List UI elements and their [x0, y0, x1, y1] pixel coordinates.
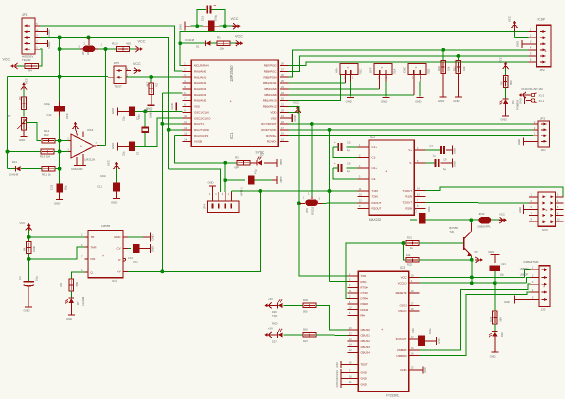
svg-text:GND: GND [336, 382, 339, 388]
svg-text:MCLR/RA4: MCLR/RA4 [194, 64, 209, 68]
connector JP2 ICSP [537, 25, 552, 66]
svg-text:S1B: S1B [427, 69, 431, 74]
IC IC4 LM555 [88, 230, 123, 277]
svg-text:RA1/AN1: RA1/AN1 [194, 75, 206, 79]
svg-text:R1IN: R1IN [405, 195, 412, 199]
svg-text:1µ: 1µ [347, 148, 350, 152]
svg-text:JP8: JP8 [305, 208, 309, 213]
supply VCC at R1 [230, 42, 235, 44]
svg-text:RI#: RI# [361, 313, 366, 317]
svg-text:TEST: TEST [361, 363, 368, 367]
svg-text:GND: GND [516, 41, 520, 47]
resistor R3 [225, 162, 237, 164]
svg-text:GND: GND [490, 355, 496, 359]
svg-text:C13: C13 [128, 256, 133, 260]
ground D3 [505, 104, 507, 116]
svg-text:5V: 5V [475, 250, 478, 254]
svg-text:RB2/AN8: RB2/AN8 [264, 93, 276, 97]
ground R16 [440, 96, 447, 98]
capacitor C1 / ground [116, 142, 118, 150]
svg-text:VUSB: VUSB [194, 140, 202, 144]
ground C32 [59, 193, 61, 200]
wire T1OUT to SV3 pin2 [426, 187, 563, 197]
svg-text:GND: GND [54, 202, 60, 206]
svg-text:JP22: JP22 [478, 212, 485, 216]
connector SV3 [538, 192, 556, 226]
ground R17 [455, 96, 462, 98]
svg-text:10k: 10k [406, 253, 411, 257]
svg-text:X1-2: X1-2 [539, 94, 545, 98]
svg-text:+: + [381, 66, 383, 70]
resistor R4 [25, 64, 39, 69]
svg-text:CBUS4: CBUS4 [361, 350, 371, 354]
svg-text:1µ: 1µ [433, 154, 436, 158]
svg-text:VSS: VSS [271, 116, 277, 120]
potentiometer column R6 [23, 83, 25, 90]
ground C3 [25, 306, 32, 308]
svg-text:DTR#: DTR# [361, 297, 369, 301]
wire FT VCC row [419, 276, 524, 278]
svg-text:RB1/AN10: RB1/AN10 [263, 99, 277, 103]
ground R7 [23, 130, 25, 137]
svg-text:47n: 47n [133, 260, 138, 264]
resistor R21 [406, 241, 419, 246]
svg-text:C11: C11 [97, 185, 102, 189]
svg-text:18F2550: 18F2550 [229, 65, 234, 82]
switch S1A [374, 64, 392, 75]
wire DTR to R21/R22 [346, 243, 404, 299]
svg-text:47µ: 47µ [254, 169, 258, 174]
svg-text:VCC: VCC [133, 62, 141, 66]
ground D30 [494, 337, 496, 352]
wire op-amp out riser [105, 49, 107, 146]
wire VCC to J20 pin1 [525, 270, 531, 278]
capacitor C3 [28, 259, 30, 282]
svg-text:GND: GND [424, 367, 427, 373]
svg-text:GND: GND [19, 138, 25, 142]
svg-text:100µ: 100µ [44, 102, 50, 106]
svg-text:+: + [80, 145, 82, 149]
svg-text:10k: 10k [447, 66, 451, 71]
svg-text:100k: 100k [32, 246, 36, 252]
wire RB2 to S1B [288, 94, 413, 96]
ground R2 [150, 94, 152, 105]
svg-text:THR: THR [91, 245, 97, 249]
ground S1B [417, 97, 424, 99]
wire RB4 to S1C [288, 82, 345, 84]
connector JP4 [207, 201, 239, 212]
svg-text:RB0/AN12: RB0/AN12 [263, 105, 277, 109]
ground S1C [347, 97, 354, 99]
svg-text:R: R [118, 258, 120, 262]
svg-text:GND: GND [400, 368, 406, 372]
svg-text:OSCI: OSCI [400, 304, 407, 308]
wire RC6 TX line [288, 129, 533, 131]
ground ICSP pin3 [521, 40, 523, 48]
svg-text:TXD: TXD [272, 314, 277, 318]
svg-text:IC3: IC3 [400, 266, 405, 270]
svg-text:VCC: VCC [235, 35, 243, 39]
supply VCC at C17 [225, 25, 233, 27]
ground D2 [276, 159, 278, 167]
svg-text:560: 560 [303, 328, 308, 332]
svg-text:C6: C6 [347, 162, 351, 166]
capacitor C8 [426, 162, 435, 164]
IC IC2 MAX232 [369, 140, 414, 215]
svg-text:82p: 82p [64, 185, 68, 190]
wire RC5 to JP3 [288, 135, 533, 137]
svg-text:V-: V- [409, 161, 412, 165]
LED D30 USB [494, 324, 496, 332]
svg-text:USBSUPPL: USBSUPPL [477, 225, 491, 229]
diode D1 [180, 42, 205, 44]
svg-text:GND: GND [519, 98, 523, 104]
resistor R12 [117, 47, 130, 52]
svg-text:RB3/AN9: RB3/AN9 [264, 87, 276, 91]
svg-text:T2OUT: T2OUT [403, 201, 413, 205]
connector JP3 [538, 121, 549, 147]
svg-text:RB7/PGD: RB7/PGD [264, 64, 277, 68]
svg-text:GND: GND [111, 143, 115, 149]
svg-text:RXD: RXD [272, 322, 278, 326]
svg-text:C16: C16 [200, 15, 204, 21]
svg-text:2k2: 2k2 [44, 133, 49, 137]
svg-text:RC2/CCP1: RC2/CCP1 [194, 134, 209, 138]
LED D3 POWER [505, 88, 507, 99]
node riser x59.6 [59, 37, 61, 101]
svg-text:+: + [347, 66, 349, 70]
capacitor C12 [54, 106, 65, 112]
svg-text:RA5/AN5: RA5/AN5 [194, 99, 206, 103]
svg-text:+V: +V [117, 270, 121, 274]
svg-text:D1: D1 [196, 45, 200, 49]
svg-text:RC5/D+: RC5/D+ [266, 134, 277, 138]
wire FT VCCIO row [419, 282, 526, 284]
svg-text:22p: 22p [122, 116, 126, 121]
wire C21 node to R23 [494, 283, 496, 311]
resistor R23 [493, 311, 498, 324]
svg-text:RB4/AN11: RB4/AN11 [263, 81, 277, 85]
svg-text:GND: GND [361, 371, 367, 375]
svg-text:GND: GND [170, 103, 174, 109]
svg-text:D11: D11 [12, 160, 17, 164]
svg-text:C7: C7 [430, 144, 434, 148]
wire JP4 pin1 to T1IN [230, 191, 232, 192]
svg-text:GND: GND [47, 41, 51, 49]
svg-text:IC2: IC2 [370, 135, 375, 139]
svg-text:AP: AP [86, 51, 90, 55]
wire JP1.1 to IC1 RA0 [40, 26, 183, 71]
svg-text:R16: R16 [437, 66, 441, 71]
svg-text:RB6/PGC: RB6/PGC [264, 69, 277, 73]
svg-text:+: + [415, 66, 417, 70]
LED D27 RXD [265, 334, 272, 336]
svg-text:JP3: JP3 [540, 116, 546, 120]
svg-text:RC6/TX/CK: RC6/TX/CK [261, 128, 276, 132]
wire VCCIO to J20 pin2 [527, 278, 531, 284]
wire wiper to R14 [27, 123, 42, 141]
svg-text:GND: GND [517, 139, 521, 145]
svg-text:C1-: C1- [372, 156, 377, 160]
ground FT232 left [341, 363, 347, 365]
svg-text:JP5: JP5 [114, 61, 120, 65]
svg-text:420: 420 [126, 42, 131, 46]
svg-text:CON-JST-162: CON-JST-162 [527, 87, 544, 91]
svg-text:TEST: TEST [114, 85, 122, 89]
svg-text:GND: GND [415, 99, 421, 103]
svg-text:VCCIO: VCCIO [398, 281, 408, 285]
svg-text:RS232: RS232 [311, 206, 315, 215]
wire USBDM to J20 [419, 292, 530, 356]
svg-text:VCC: VCC [20, 221, 26, 225]
jumper JP8 RS232 [305, 200, 312, 206]
svg-text:IC1: IC1 [229, 132, 234, 139]
svg-text:GND: GND [336, 362, 339, 368]
svg-text:TR: TR [91, 235, 95, 239]
svg-text:C22: C22 [414, 207, 418, 212]
ground JP3 [522, 137, 524, 145]
svg-text:R27: R27 [303, 339, 308, 343]
svg-text:GNDGND: GNDGND [71, 167, 83, 171]
svg-text:R1OUT: R1OUT [372, 201, 382, 205]
connector JP5 TEST [114, 66, 126, 83]
wire to C4 [224, 163, 226, 180]
svg-text:DCD#: DCD# [361, 308, 369, 312]
svg-text:D7: D7 [76, 301, 80, 305]
ground J20 pin5 [514, 296, 516, 304]
svg-text:C8: C8 [443, 158, 447, 162]
svg-text:RC4/D-: RC4/D- [267, 140, 277, 144]
wire RB3 to S1A [288, 88, 379, 90]
ground pin19 [288, 117, 292, 119]
svg-text:+: + [543, 285, 545, 289]
supply VCC op-amp [75, 123, 77, 130]
svg-text:RC7/RX/DT: RC7/RX/DT [261, 122, 276, 126]
ground op-amp pins [76, 157, 78, 166]
ground pin2 JP1 [47, 28, 49, 35]
svg-text:GND: GND [336, 370, 339, 376]
LED D2 SYNC [256, 160, 258, 166]
svg-text:GND: GND [438, 99, 444, 103]
svg-text:VCC: VCC [107, 160, 111, 166]
svg-text:GND: GND [151, 234, 155, 240]
svg-text:GND: GND [381, 99, 387, 103]
svg-text:GND: GND [279, 177, 283, 183]
svg-text:S1C: S1C [359, 69, 363, 74]
svg-text:100µ: 100µ [213, 14, 217, 21]
resistor R13 [8, 151, 42, 153]
svg-text:VDD: VDD [270, 110, 276, 114]
connector JP1 [22, 18, 35, 54]
svg-text:C3: C3 [18, 276, 22, 280]
svg-text:C10: C10 [137, 114, 141, 119]
svg-text:22p: 22p [122, 151, 126, 156]
svg-text:RC1/T1OSI: RC1/T1OSI [194, 128, 209, 132]
wire RB1 riser [288, 74, 340, 100]
capacitor C2 / ground [116, 107, 118, 115]
wire node RA1 row [8, 76, 109, 78]
svg-text:1µ: 1µ [347, 169, 350, 173]
svg-text:OSCO: OSCO [398, 309, 407, 313]
svg-text:560: 560 [509, 80, 513, 85]
resistor R11 [42, 166, 55, 171]
svg-text:J20: J20 [541, 308, 546, 312]
svg-text:R9: R9 [500, 81, 504, 85]
ground D7 [70, 303, 72, 315]
svg-text:GND: GND [208, 181, 214, 185]
wire 555 Q to R5 [71, 272, 84, 279]
svg-text:ALARM: ALARM [81, 296, 85, 306]
vert left rail x7.5 [7, 77, 9, 169]
svg-text:GND: GND [453, 99, 459, 103]
wire RC7 to JP8/JP3 [288, 123, 533, 125]
wire THR loop [29, 247, 85, 259]
capacitor C7 [426, 149, 440, 151]
resistor R16 [442, 50, 444, 60]
supply VCC at JP5 [134, 70, 141, 72]
svg-text:GND: GND [504, 300, 510, 304]
svg-text:CV: CV [116, 246, 120, 250]
svg-text:CBUS0: CBUS0 [361, 328, 371, 332]
capacitor C11 decoupling [116, 163, 118, 170]
svg-text:GND: GND [293, 115, 297, 121]
resistor R4 100k [28, 237, 30, 242]
svg-text:LM555: LM555 [101, 224, 111, 228]
LED D26 TXD [265, 304, 272, 306]
svg-text:R11: R11 [452, 66, 456, 71]
svg-text:R26: R26 [303, 298, 308, 302]
supply VCC JP22 [499, 219, 506, 221]
ground SV3 pin5 [523, 205, 525, 215]
svg-text:FT232RL: FT232RL [386, 394, 400, 398]
svg-text:T2b: T2b [449, 230, 454, 234]
svg-text:10µ: 10µ [35, 276, 39, 281]
supply VCC pin20 [288, 111, 298, 113]
resistor R14 [42, 138, 55, 143]
svg-text:D3: D3 [511, 100, 515, 104]
svg-text:C5: C5 [347, 141, 351, 145]
resistor R26 [303, 303, 316, 307]
capacitor C20 [418, 338, 420, 340]
svg-text:JP4: JP4 [203, 204, 207, 209]
svg-text:RA4/AN4: RA4/AN4 [194, 93, 206, 97]
svg-text:JP1: JP1 [22, 13, 28, 17]
resistor R27 [303, 333, 316, 337]
switch S1B [408, 64, 426, 75]
svg-text:R6: R6 [18, 96, 22, 100]
resistor R6 [22, 97, 27, 110]
svg-text:RA2/AN2: RA2/AN2 [194, 81, 206, 85]
resistor R22 [406, 258, 419, 263]
svg-text:USBDP: USBDP [520, 273, 529, 276]
svg-text:1N4148: 1N4148 [185, 38, 195, 42]
svg-text:TXD: TXD [361, 274, 367, 278]
svg-text:RESET#: RESET# [396, 291, 407, 295]
transistor T2 BC556 [463, 237, 465, 250]
wire MCLR rail to ICSP [180, 32, 529, 66]
svg-text:VCC: VCC [499, 57, 503, 63]
svg-text:VCC: VCC [231, 17, 239, 21]
wire RA4/RC0 riser x162.3 [161, 93, 163, 272]
ground S1A [383, 97, 390, 99]
svg-text:100n: 100n [427, 206, 431, 212]
ground FT232 right [419, 369, 423, 371]
svg-text:MAX232: MAX232 [369, 218, 381, 222]
svg-text:16MHz: 16MHz [149, 109, 153, 118]
svg-text:R23: R23 [489, 316, 493, 321]
svg-text:DIS: DIS [91, 257, 96, 261]
svg-text:100n: 100n [100, 174, 106, 178]
supply VCC at R12 [130, 48, 136, 50]
capacitor C32 [56, 184, 62, 193]
svg-text:IC16: IC16 [87, 128, 94, 132]
svg-text:ICSP: ICSP [538, 18, 545, 22]
svg-text:CBUS3: CBUS3 [361, 345, 371, 349]
svg-text:R4: R4 [23, 247, 27, 251]
svg-text:USB&FTMS: USB&FTMS [523, 260, 538, 264]
switch S1C [340, 64, 358, 75]
svg-text:GND: GND [279, 159, 283, 165]
wire C4 to JP4 pin2 [224, 180, 226, 192]
wire JP1.3 to IC1 RC1 [40, 37, 183, 129]
svg-text:OFF: OFF [369, 67, 373, 73]
IC IC1 18F2550 [191, 60, 278, 146]
ground 555 pin1 [128, 236, 143, 238]
svg-text:T2IN: T2IN [372, 195, 378, 199]
op-amp IC16 LM311N [71, 134, 94, 158]
capacitor C6 [347, 167, 358, 169]
svg-text:GND: GND [24, 309, 30, 313]
FT232 TEST/GND pins [347, 363, 358, 365]
svg-text:VCC: VCC [499, 213, 505, 217]
svg-text:100n: 100n [429, 328, 432, 334]
svg-text:560: 560 [75, 282, 79, 287]
svg-text:USBDM: USBDM [520, 268, 529, 271]
svg-text:GND: GND [488, 250, 494, 254]
svg-text:D30: D30 [500, 332, 504, 337]
svg-text:GND: GND [346, 99, 352, 103]
supply VCC ICSP [514, 22, 516, 29]
wire R26 to CBUS0 [316, 305, 347, 330]
svg-text:D2: D2 [260, 153, 264, 157]
svg-text:RA3/AN3: RA3/AN3 [194, 87, 206, 91]
svg-text:R1: R1 [217, 36, 221, 40]
svg-text:VCC: VCC [65, 113, 69, 119]
svg-text:T1IN: T1IN [372, 189, 378, 193]
resistor R1 [217, 41, 230, 46]
svg-text:V+: V+ [408, 148, 412, 152]
svg-text:X1-1: X1-1 [539, 99, 545, 103]
wire JP1.5 to R4 [38, 49, 42, 66]
svg-text:RA0/AN0: RA0/AN0 [194, 69, 206, 73]
svg-text:GND: GND [47, 29, 51, 37]
ground JP4 pin4 [209, 185, 216, 187]
svg-text:CBUS1: CBUS1 [361, 334, 371, 338]
jumper JP22 USBSUPPL [471, 219, 478, 221]
svg-text:10k: 10k [462, 66, 466, 71]
capacitor C4 [248, 176, 254, 185]
svg-text:GND: GND [453, 148, 457, 154]
svg-text:10µ: 10µ [500, 273, 505, 277]
wire RC2 to R3 row [287, 135, 289, 137]
svg-text:560: 560 [303, 310, 308, 314]
wire TX net JP4 to T1IN [231, 190, 357, 192]
resistor R5 [69, 279, 74, 291]
wire RB5-RB7 to ICSP [288, 50, 528, 77]
wire R27 to CBUS1 [316, 334, 347, 337]
svg-text:TEAM: TEAM [22, 58, 31, 62]
wire collector to JP22 row [470, 223, 472, 232]
